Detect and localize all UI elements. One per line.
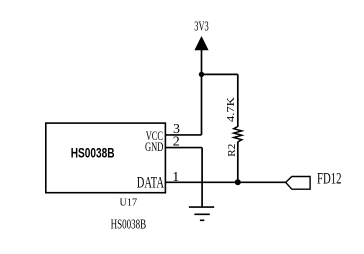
svg-text:GND: GND — [145, 139, 163, 154]
svg-text:3V3: 3V3 — [194, 20, 209, 35]
svg-text:4.7K: 4.7K — [226, 97, 237, 122]
svg-text:R2: R2 — [227, 144, 238, 157]
svg-text:FD12: FD12 — [317, 171, 342, 188]
svg-text:2: 2 — [173, 134, 180, 149]
svg-text:HS0038B: HS0038B — [111, 217, 147, 232]
svg-text:HS0038B: HS0038B — [71, 144, 115, 160]
svg-text:U17: U17 — [120, 198, 138, 209]
svg-text:1: 1 — [172, 170, 179, 185]
svg-text:DATA: DATA — [137, 175, 165, 192]
